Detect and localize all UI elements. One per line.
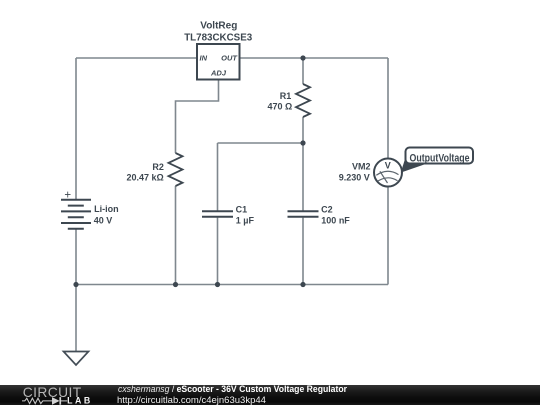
svg-text:VoltReg: VoltReg — [200, 21, 237, 32]
svg-text:20.47 kΩ: 20.47 kΩ — [126, 172, 163, 182]
svg-text:40 V: 40 V — [94, 215, 113, 225]
svg-text:R1: R1 — [280, 91, 292, 101]
svg-text:9.230 V: 9.230 V — [339, 172, 370, 182]
svg-text:1 µF: 1 µF — [236, 216, 255, 226]
svg-text:IN: IN — [200, 54, 208, 63]
svg-text:TL783CKCSE3: TL783CKCSE3 — [184, 32, 252, 43]
svg-text:C1: C1 — [236, 204, 248, 214]
svg-text:OUT: OUT — [221, 54, 238, 63]
svg-text:VM2: VM2 — [352, 162, 371, 172]
svg-text:ADJ: ADJ — [210, 69, 227, 78]
svg-text:+: + — [64, 190, 71, 202]
svg-text:C2: C2 — [321, 204, 333, 214]
svg-text:100 nF: 100 nF — [321, 216, 350, 226]
svg-text:Li-ion: Li-ion — [94, 204, 119, 214]
svg-text:470 Ω: 470 Ω — [267, 101, 292, 111]
svg-text:R2: R2 — [152, 162, 164, 172]
svg-text:V: V — [385, 160, 391, 170]
svg-text:OutputVoltage: OutputVoltage — [410, 152, 470, 164]
svg-text:LAB: LAB — [67, 395, 93, 405]
